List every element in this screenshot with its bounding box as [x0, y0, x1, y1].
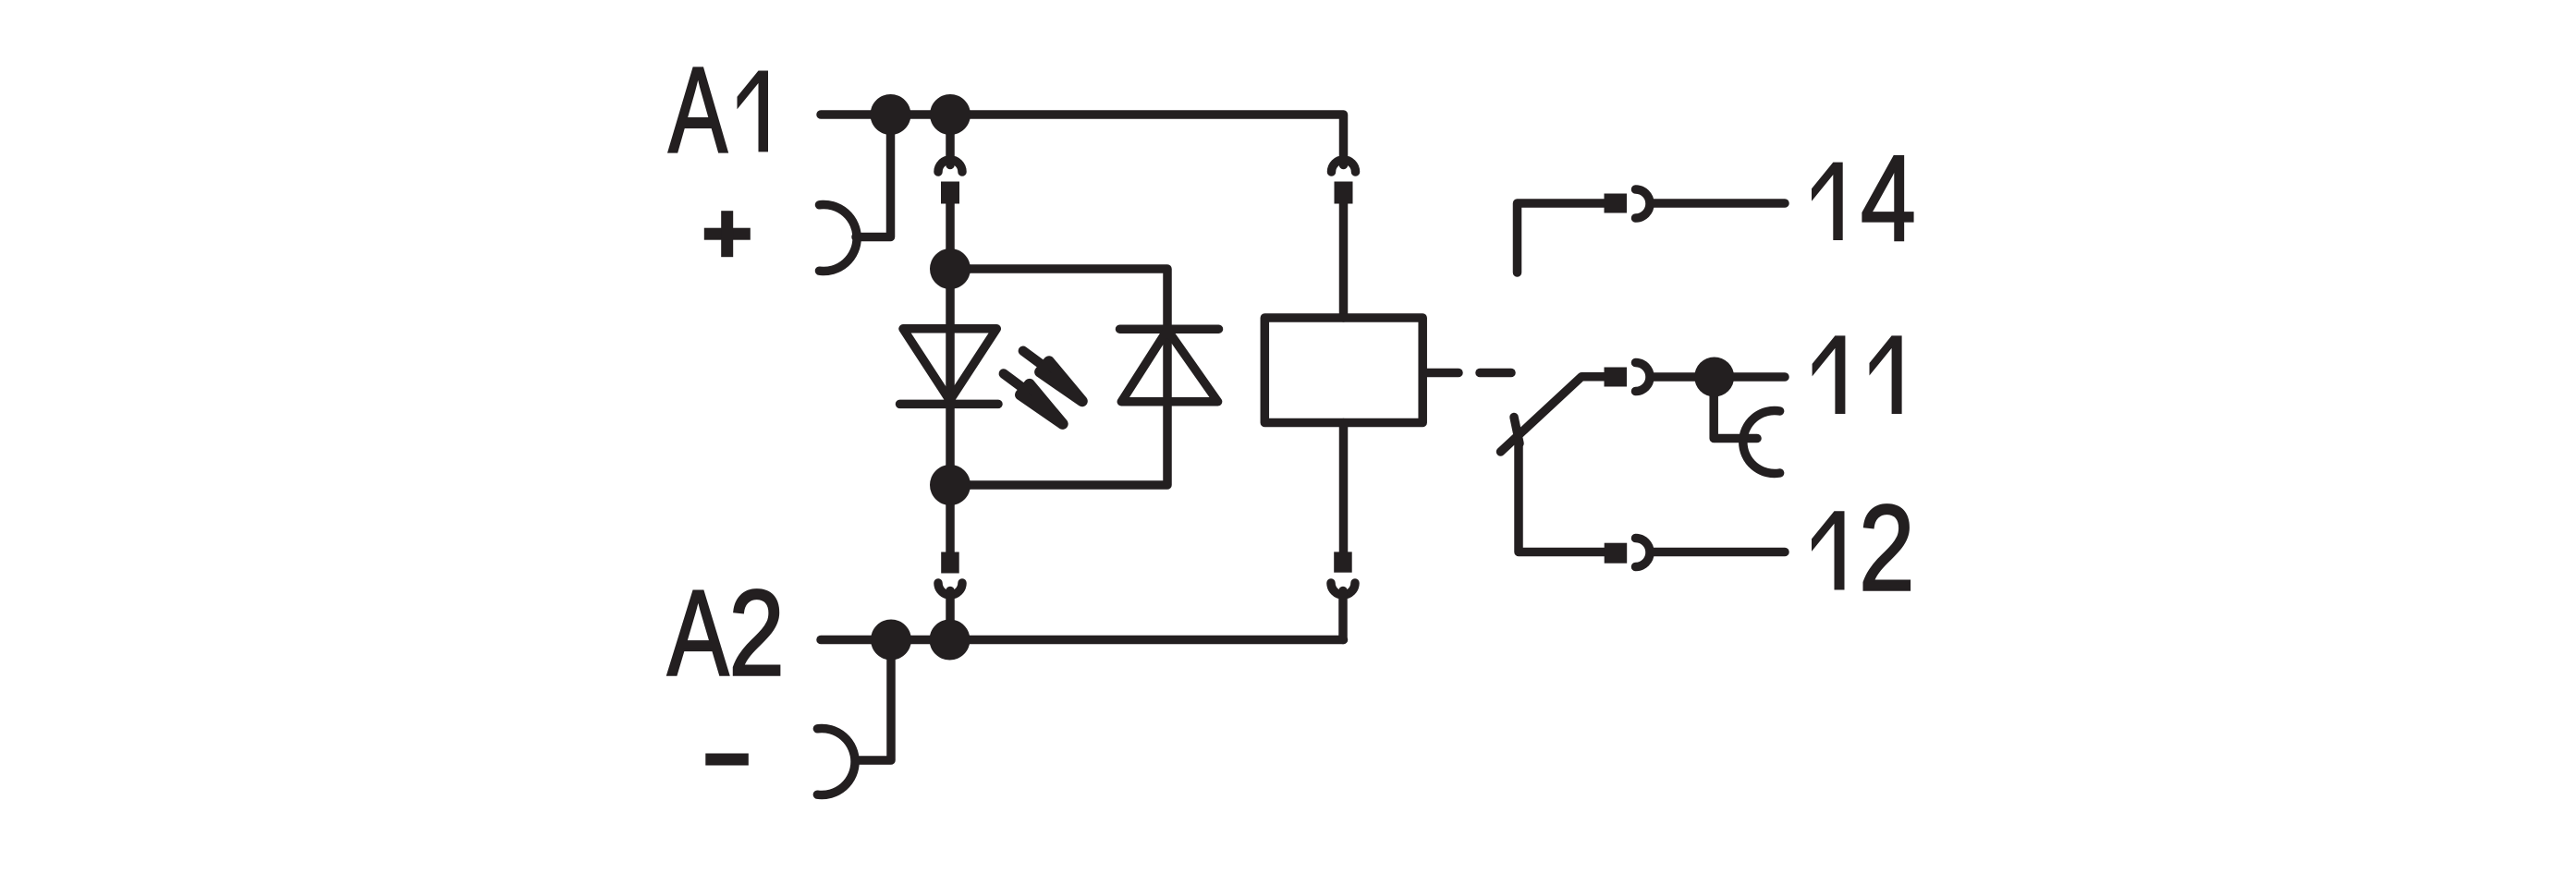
- svg-text:A: A: [667, 564, 729, 701]
- svg-text:2: 2: [728, 564, 785, 701]
- svg-text:2: 2: [1859, 479, 1915, 616]
- svg-text:A: A: [668, 43, 727, 178]
- svg-text:4: 4: [1861, 130, 1916, 267]
